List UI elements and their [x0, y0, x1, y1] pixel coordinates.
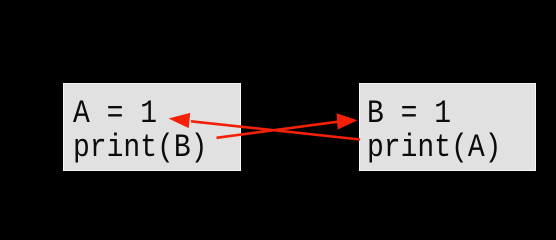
right code box — [359, 83, 536, 172]
right-pointing arrowhead — [337, 113, 358, 129]
left box code text: A = 1 / print(B) — [73, 97, 207, 166]
arrow from right box print(A) to left box A=1 (left-pointing): shaft — [191, 121, 360, 139]
left-pointing arrowhead — [169, 113, 191, 128]
left code box — [63, 83, 242, 172]
right box code text: B = 1 / print(A) — [367, 97, 501, 166]
arrow from left box print(B) to right box B=1 (right-pointing): shaft — [217, 122, 339, 138]
